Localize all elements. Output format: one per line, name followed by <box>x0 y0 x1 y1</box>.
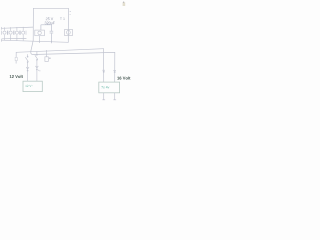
terminal marks on 16V box left wire <box>102 70 105 72</box>
node tick left end top rail <box>1 27 3 29</box>
wire top rail of lamp row <box>2 27 33 28</box>
wire top horizontal <box>33 7 68 9</box>
text label 16 Volt <box>117 77 130 80</box>
text inside 16V box <box>101 86 109 88</box>
switch S1 on wire to 12V box left terminal <box>25 54 29 81</box>
wire left vertical branch <box>31 8 34 51</box>
lamp L3 <box>14 27 20 41</box>
wire right drop to 16V box right terminal <box>114 52 116 82</box>
capacitor C1 320uF <box>41 25 53 44</box>
transistor T1 symbol <box>65 11 73 35</box>
wire stub below 16V box left <box>102 93 105 100</box>
battery box 16V <box>99 82 120 93</box>
relay K1 stub <box>45 50 50 61</box>
wire T1 vertical <box>67 8 69 42</box>
wire upper bus <box>16 49 103 53</box>
wire bottom rail <box>2 40 69 42</box>
lamp L2 <box>8 27 13 40</box>
wire bridge from meter box top to capacitor top <box>41 25 52 31</box>
speck top right <box>123 2 126 7</box>
connector terminal marks <box>26 67 29 69</box>
text label 12 Volt <box>10 75 23 78</box>
text 320uF <box>45 22 55 25</box>
node tick left end bottom rail <box>1 39 3 41</box>
lamp L4 <box>20 27 26 41</box>
switch S2 on wire to 12V box right terminal <box>35 52 38 82</box>
battery box 12V <box>23 81 42 91</box>
junction dots right of S2 <box>38 70 40 72</box>
wire bottom tie of lamp row <box>2 37 26 39</box>
lamp L1 <box>2 27 8 40</box>
connector terminal marks <box>36 66 39 68</box>
text T1 <box>60 17 65 19</box>
wire lower bus to right <box>31 51 115 54</box>
wire drop to 16V box left terminal <box>103 49 105 82</box>
fuse F1 on left drop <box>15 57 17 60</box>
terminal marks on 16V box right wire <box>113 70 116 72</box>
wire stub below 16V box right <box>113 93 116 100</box>
text 25 V <box>46 18 53 21</box>
wire left drop from upper bus <box>15 52 17 63</box>
text inside 12V box <box>25 85 33 87</box>
meter M1 box with circle <box>35 30 45 43</box>
